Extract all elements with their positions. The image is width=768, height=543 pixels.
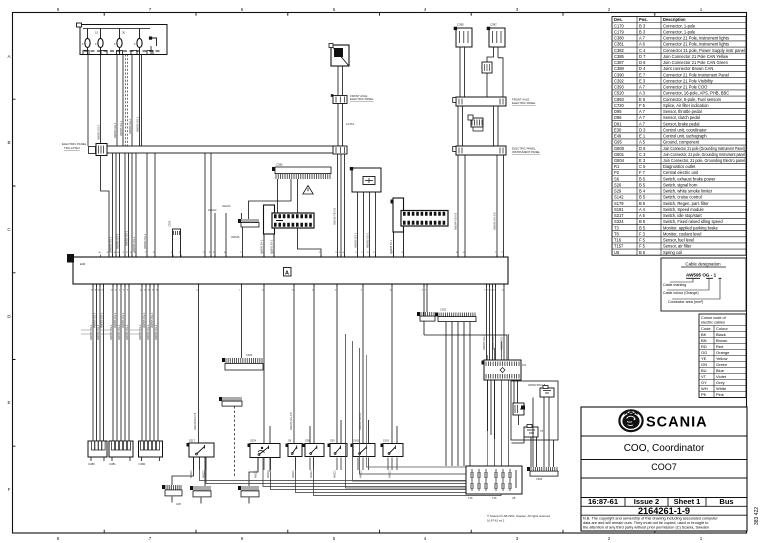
- svg-text:Switch, Speed module: Switch, Speed module: [663, 207, 704, 212]
- svg-text:RD: RD: [701, 344, 707, 349]
- svg-text:Sensor, air filter: Sensor, air filter: [663, 244, 692, 249]
- wire labels duct-E30 bundle: [109, 230, 148, 252]
- svg-text:F 5: F 5: [639, 244, 646, 249]
- svg-text:AW595 OG-1: AW595 OG-1: [96, 324, 100, 340]
- svg-text:C520: C520: [246, 353, 253, 357]
- svg-text:T16: T16: [468, 496, 473, 500]
- svg-text:S6: S6: [614, 176, 620, 181]
- sensor T157 box: [540, 388, 554, 397]
- svg-text:B 5: B 5: [639, 225, 646, 230]
- svg-text:Brown: Brown: [716, 338, 727, 343]
- wire pair T3 down: [338, 66, 343, 96]
- svg-text:Connector, 16-pole, APS, PHB,: Connector, 16-pole, APS, PHB, BBC: [663, 91, 729, 96]
- svg-text:B 5: B 5: [639, 250, 646, 255]
- svg-text:INSTRUMENT PANEL: INSTRUMENT PANEL: [512, 150, 540, 154]
- connector C170 front axle boundary: [333, 96, 347, 104]
- wire labels E49 bundle: [353, 232, 369, 248]
- wire labels C381 bundle: [109, 312, 129, 340]
- svg-text:COO, Coordinator: COO, Coordinator: [624, 443, 705, 454]
- svg-text:Switch, Regen. part. filter: Switch, Regen. part. filter: [663, 201, 709, 206]
- svg-text:Conductor area (mm²): Conductor area (mm²): [668, 300, 703, 304]
- svg-text:AW221: AW221: [255, 470, 258, 478]
- svg-text:F: F: [114, 42, 116, 46]
- svg-text:C392: C392: [614, 78, 625, 83]
- svg-text:U5: U5: [512, 496, 516, 500]
- svg-text:D 6: D 6: [639, 146, 646, 151]
- switch S191: [383, 444, 403, 457]
- svg-text:T157: T157: [614, 244, 624, 249]
- svg-text:A 4: A 4: [639, 207, 646, 212]
- svg-text:5: 5: [333, 536, 336, 541]
- control unit E30 coordinator band: [67, 252, 508, 291]
- svg-text:SCANIA: SCANIA: [646, 415, 708, 431]
- connector C390: [139, 441, 163, 466]
- svg-text:Pos.: Pos.: [639, 17, 648, 22]
- svg-text:AW595 OG-1: AW595 OG-1: [125, 230, 129, 246]
- svg-text:AW595 OG-1: AW595 OG-1: [113, 312, 117, 328]
- svg-text:© Scania CV AB 2004, Sweden. A: © Scania CV AB 2004, Sweden. All rights …: [487, 514, 551, 518]
- svg-text:AC154: AC154: [346, 122, 354, 126]
- svg-text:AW595 OG-1: AW595 OG-1: [125, 324, 129, 340]
- svg-text:N.B. The copyright and ownersh: N.B. The copyright and ownership of this…: [583, 517, 719, 521]
- svg-text:COO7: COO7: [651, 462, 677, 472]
- svg-text:AW221: AW221: [310, 470, 313, 478]
- svg-text:F 3: F 3: [639, 231, 646, 236]
- svg-text:G95: G95: [176, 502, 181, 506]
- svg-text:A 5: A 5: [639, 213, 646, 218]
- svg-text:Black: Black: [716, 332, 726, 337]
- svg-text:AW595 OG-1: AW595 OG-1: [109, 236, 113, 252]
- svg-text:Ground, component: Ground, component: [663, 140, 700, 145]
- wire horizontal to diagnostics: [424, 284, 507, 360]
- svg-text:C382: C382: [614, 48, 625, 53]
- svg-text:AW595 OG-1: AW595 OG-1: [109, 324, 113, 340]
- svg-text:S26: S26: [614, 182, 622, 187]
- wire bundle to C380: [93, 284, 104, 441]
- svg-text:A 7: A 7: [639, 36, 646, 41]
- svg-text:Sheet 1: Sheet 1: [674, 497, 701, 506]
- wire to S6: [198, 284, 200, 443]
- svg-text:C392: C392: [440, 308, 447, 312]
- svg-text:Spring coil: Spring coil: [663, 250, 682, 255]
- svg-text:B 3: B 3: [639, 29, 646, 34]
- svg-text:5: 5: [333, 7, 336, 12]
- svg-text:C 4: C 4: [639, 48, 646, 53]
- svg-text:Issue 2: Issue 2: [634, 497, 659, 506]
- sensor T8 box: [524, 427, 538, 437]
- svg-text:F: F: [82, 42, 84, 46]
- svg-text:Bus: Bus: [719, 497, 733, 506]
- svg-text:E 3: E 3: [639, 78, 646, 83]
- component designation table: [612, 17, 746, 256]
- svg-text:16:87-61: 16:87-61: [588, 497, 618, 506]
- svg-text:C388: C388: [614, 66, 625, 71]
- dashed wire splice: [234, 406, 236, 476]
- svg-text:Description: Description: [663, 17, 686, 22]
- monitor T3 applied parking brake: [329, 44, 349, 67]
- svg-text:Connector 21 Pole COO: Connector 21 Pole COO: [663, 85, 707, 90]
- svg-text:AW595 OG-1: AW595 OG-1: [119, 120, 123, 136]
- svg-text:C893: C893: [536, 477, 543, 481]
- scania griffin badge: [619, 410, 642, 431]
- svg-text:4: 4: [424, 536, 427, 541]
- svg-text:Control unit, tachograph: Control unit, tachograph: [663, 134, 707, 139]
- svg-text:S29: S29: [330, 439, 335, 443]
- svg-text:G804: G804: [614, 158, 625, 163]
- svg-text:E 3: E 3: [639, 158, 646, 163]
- switch stub labels: [190, 470, 392, 478]
- wire labels C390 bundle: [138, 312, 158, 340]
- svg-text:E30: E30: [80, 262, 86, 266]
- joint connector C387 CAN green: [487, 23, 505, 48]
- svg-text:AW221: AW221: [267, 470, 270, 478]
- svg-text:Sensor, throttle pedal: Sensor, throttle pedal: [663, 109, 702, 114]
- wires enclosure down: [512, 398, 554, 468]
- svg-text:Join Connector, 21 pole, Groun: Join Connector, 21 pole, Grounding Instr…: [663, 152, 745, 157]
- svg-text:AW595 OG-1: AW595 OG-1: [132, 236, 136, 252]
- wire pair C385: [205, 153, 211, 257]
- svg-text:C381: C381: [109, 462, 116, 466]
- svg-text:7: 7: [149, 536, 152, 541]
- svg-text:E: E: [7, 400, 10, 405]
- wire triple to E30 can: [338, 154, 345, 257]
- svg-text:7: 7: [149, 7, 152, 12]
- connector C381: [109, 441, 133, 466]
- svg-text:VT: VT: [701, 374, 707, 379]
- svg-text:AW218 BU-0.8: AW218 BU-0.8: [193, 412, 197, 430]
- svg-text:F: F: [134, 42, 136, 46]
- svg-text:ELECTRIC PANEL: ELECTRIC PANEL: [350, 97, 374, 101]
- svg-text:Sensor, brake pedal: Sensor, brake pedal: [663, 121, 700, 126]
- svg-text:Connector 21 pole, Power Suppl: Connector 21 pole, Power Supply instr pa…: [663, 48, 745, 53]
- wire labels R1 bundle: [482, 334, 504, 350]
- connector C520 comb: [225, 363, 263, 370]
- wire to S142: [337, 284, 341, 443]
- svg-text:AW221: AW221: [292, 470, 295, 478]
- svg-text:16:87-61 ed.2: 16:87-61 ed.2: [487, 519, 505, 523]
- svg-text:D 7: D 7: [639, 54, 646, 59]
- svg-text:F: F: [95, 42, 97, 46]
- svg-text:the attention of any third par: the attention of any third party without…: [583, 526, 709, 530]
- svg-text:Join Connector 21 pole (Ground: Join Connector 21 pole (Grounding Instru…: [663, 146, 746, 151]
- svg-text:B 5: B 5: [639, 201, 646, 206]
- svg-text:AW595 OG-1: AW595 OG-1: [97, 124, 101, 140]
- wire labels left bundle: [97, 116, 140, 140]
- svg-text:B 5: B 5: [639, 195, 646, 200]
- diagnostics outlet R1: [482, 360, 527, 380]
- join connector G800 grounding: [391, 198, 449, 232]
- svg-text:C387: C387: [490, 23, 497, 27]
- join connector G801 grounding: [264, 205, 315, 234]
- wire labels C380 bundle: [89, 312, 104, 340]
- svg-text:E49: E49: [614, 134, 622, 139]
- svg-text:B 5: B 5: [639, 176, 646, 181]
- svg-text:S191: S191: [383, 439, 390, 443]
- svg-text:BN: BN: [701, 338, 707, 343]
- svg-text:A 7: A 7: [639, 109, 646, 114]
- svg-text:AW595 OG - 1: AW595 OG - 1: [686, 273, 717, 278]
- colour code table: [699, 314, 746, 398]
- svg-text:D 4: D 4: [639, 66, 646, 71]
- svg-text:AW595 OG-1: AW595 OG-1: [365, 232, 369, 248]
- wire x226: [225, 213, 227, 257]
- reference node A box: [284, 268, 292, 277]
- wire G800 legs: [394, 232, 404, 257]
- svg-text:C387: C387: [614, 60, 625, 65]
- svg-text:4: 4: [424, 7, 427, 12]
- svg-text:1: 1: [700, 536, 703, 541]
- svg-text:P2: P2: [614, 170, 620, 175]
- svg-text:Switch, Fixed raised idling sp: Switch, Fixed raised idling speed: [663, 219, 723, 224]
- svg-text:3: 3: [516, 7, 519, 12]
- svg-text:Colour code of: Colour code of: [701, 316, 727, 320]
- switch bottom stubs: [194, 458, 398, 471]
- svg-text:AW595 OG-1: AW595 OG-1: [92, 312, 96, 328]
- svg-text:3: 3: [516, 536, 519, 541]
- switch S324: [250, 444, 280, 458]
- switch S6: [288, 444, 302, 457]
- svg-text:Orange: Orange: [716, 350, 730, 355]
- connector bar electric panel lower: [456, 146, 506, 155]
- wires from C392 comb: [446, 322, 470, 467]
- svg-text:AW228 YE-0.8: AW228 YE-0.8: [358, 412, 362, 430]
- svg-text:C720: C720: [614, 103, 625, 108]
- wire comb to E30: [242, 227, 244, 257]
- svg-text:AW595 OG-1: AW595 OG-1: [482, 334, 486, 350]
- svg-text:T16: T16: [614, 238, 622, 243]
- comb C392: [438, 317, 476, 322]
- svg-text:A 7: A 7: [639, 85, 646, 90]
- cable duct electric panel C381: [62, 142, 344, 156]
- svg-text:A 6: A 6: [639, 42, 646, 47]
- wire C382 right leg: [298, 179, 322, 257]
- svg-text:D 3: D 3: [639, 127, 646, 132]
- connector C382 power supply comb: [275, 167, 331, 174]
- switch S26: [305, 444, 324, 457]
- svg-text:C170: C170: [614, 23, 625, 28]
- svg-text:AW595 OG-1: AW595 OG-1: [121, 312, 125, 328]
- svg-text:F: F: [8, 487, 11, 492]
- svg-text:Switch, white smoke limiter: Switch, white smoke limiter: [663, 189, 713, 194]
- wire to S191: [392, 284, 397, 443]
- wire C382 left leg: [249, 179, 292, 219]
- routing loop wires CAN: [346, 334, 509, 488]
- svg-text:S191: S191: [614, 207, 624, 212]
- svg-text:AW595 OG-1: AW595 OG-1: [146, 324, 150, 340]
- fuse box P2 central electric unit: [77, 23, 168, 55]
- switch S29: [330, 444, 347, 457]
- svg-text:YE: YE: [701, 356, 707, 361]
- svg-text:F 5: F 5: [639, 103, 646, 108]
- wire P2 to E30 pin jog: [101, 156, 110, 257]
- svg-text:Connector 21 Pole, instrument: Connector 21 Pole, instrument lights: [663, 36, 729, 41]
- svg-text:D95: D95: [614, 109, 622, 114]
- svg-text:C393: C393: [614, 85, 625, 90]
- svg-text:Cable marking: Cable marking: [663, 283, 686, 287]
- svg-text:U5: U5: [614, 250, 620, 255]
- svg-text:S217: S217: [614, 213, 624, 218]
- svg-text:Control unit, coordinator: Control unit, coordinator: [663, 127, 707, 132]
- svg-text:GN: GN: [701, 362, 707, 367]
- svg-text:E 5: E 5: [639, 97, 646, 102]
- wire quad bar to bar: [458, 106, 498, 146]
- svg-text:G800: G800: [614, 146, 625, 151]
- svg-text:Cable designation: Cable designation: [685, 262, 721, 267]
- svg-text:Cable colour (Orange): Cable colour (Orange): [663, 291, 699, 295]
- wire bundle duct to E30: [113, 153, 156, 257]
- svg-text:R1: R1: [614, 164, 620, 169]
- tachograph control unit E49: [350, 167, 381, 192]
- svg-text:AW516 YE-0.8: AW516 YE-0.8: [333, 207, 337, 225]
- svg-text:Pink: Pink: [716, 392, 724, 397]
- joint connector comb x241: [241, 223, 259, 227]
- svg-text:A 7: A 7: [639, 115, 646, 120]
- svg-text:F 7: F 7: [639, 170, 646, 175]
- wire dashed pair: [126, 55, 128, 147]
- svg-text:AW221: AW221: [190, 470, 193, 478]
- svg-text:C381: C381: [614, 42, 625, 47]
- connector on E30 x173: [173, 229, 181, 257]
- svg-text:8: 8: [57, 536, 60, 541]
- svg-text:AW544 YE-0.8: AW544 YE-0.8: [454, 212, 458, 230]
- svg-text:Connector, 6-pole, Fuel sensor: Connector, 6-pole, Fuel sensors: [663, 97, 721, 102]
- svg-text:Diagnostics outlet: Diagnostics outlet: [663, 164, 696, 169]
- wire pair C170 down: [338, 104, 343, 147]
- wire quad bar to E30: [458, 155, 504, 257]
- svg-text:AW225 GN-0.8: AW225 GN-0.8: [289, 412, 293, 430]
- switch S217: [189, 443, 214, 457]
- routing loop inner: [367, 355, 488, 467]
- svg-text:D91: D91: [614, 121, 622, 126]
- svg-text:S324: S324: [614, 219, 624, 224]
- svg-text:Connector 21 Pole Instrument P: Connector 21 Pole Instrument Panel: [663, 72, 729, 77]
- svg-text:S26: S26: [305, 439, 310, 443]
- wire G801 legs to E30: [264, 234, 274, 257]
- svg-text:15: 15: [95, 31, 99, 35]
- svg-text:Join Connector, 21 pole, Groun: Join Connector, 21 pole, Grounding Elect…: [663, 158, 745, 163]
- svg-text:2164261-1-9: 2164261-1-9: [638, 506, 690, 516]
- svg-text:C385: C385: [457, 23, 464, 27]
- svg-text:6: 6: [241, 7, 244, 12]
- svg-text:Monitor, coolant level: Monitor, coolant level: [663, 231, 702, 236]
- relay symbol enclosure: [513, 403, 524, 415]
- svg-text:AW595 OG-1: AW595 OG-1: [138, 324, 142, 340]
- title block frame: [581, 407, 747, 531]
- svg-text:1: 1: [700, 7, 703, 12]
- svg-text:PK: PK: [701, 392, 707, 397]
- svg-text:A: A: [285, 271, 289, 277]
- svg-text:AW595 OG-1: AW595 OG-1: [500, 334, 504, 350]
- svg-text:Des.: Des.: [614, 17, 623, 22]
- svg-text:C520: C520: [614, 91, 625, 96]
- svg-text:AW595 OG-1: AW595 OG-1: [113, 122, 117, 138]
- warning triangle: [303, 186, 313, 195]
- svg-text:AW595 OG-1: AW595 OG-1: [150, 312, 154, 328]
- splice comb small: [222, 401, 242, 406]
- wire to S179: [363, 284, 369, 443]
- combs below switches: [165, 490, 182, 496]
- svg-text:AW595 OG-1: AW595 OG-1: [117, 324, 121, 340]
- svg-text:Connector 21 Pole, instrument: Connector 21 Pole, instrument lights: [663, 42, 729, 47]
- svg-text:Violet: Violet: [716, 374, 727, 379]
- svg-text:Connector, 1-pole: Connector, 1-pole: [663, 29, 696, 34]
- svg-text:TRA-CTRL2: TRA-CTRL2: [64, 146, 80, 150]
- wires R1 to enclosure: [488, 380, 518, 439]
- svg-text:GY: GY: [701, 380, 707, 385]
- svg-text:Switch, signal horn: Switch, signal horn: [663, 182, 698, 187]
- svg-text:Join Connector 21 Pole CAN Yel: Join Connector 21 Pole CAN Yellow: [663, 54, 728, 59]
- svg-text:Colour: Colour: [716, 326, 728, 331]
- svg-text:Switch, cruise control: Switch, cruise control: [663, 195, 702, 200]
- svg-text:B 5: B 5: [639, 219, 646, 224]
- wire S217 to comb C170b: [172, 457, 194, 485]
- wire bundle to C381: [113, 284, 129, 441]
- svg-text:S217: S217: [189, 439, 196, 443]
- wire S324 to comb: [249, 458, 270, 487]
- svg-text:A 7: A 7: [639, 121, 646, 126]
- svg-text:AW593 BN-0.8: AW593 BN-0.8: [528, 383, 546, 387]
- svg-text:D 6: D 6: [639, 60, 646, 65]
- cable designation legend: [661, 258, 746, 311]
- svg-text:AW545 GN-0.8: AW545 GN-0.8: [493, 212, 497, 230]
- svg-text:30: 30: [122, 31, 126, 35]
- comb stubs ground: [172, 497, 249, 504]
- svg-text:B 4: B 4: [639, 189, 646, 194]
- svg-text:AW595 OG-1: AW595 OG-1: [353, 232, 357, 248]
- svg-text:C179: C179: [614, 29, 625, 34]
- svg-text:AW595 OG-1: AW595 OG-1: [142, 312, 146, 328]
- svg-text:Code: Code: [701, 326, 711, 331]
- svg-text:T16: T16: [492, 496, 497, 500]
- wire pair C385 down: [460, 47, 465, 97]
- svg-text:BK: BK: [701, 332, 707, 337]
- svg-text:383 422: 383 422: [754, 507, 760, 525]
- svg-text:WH: WH: [701, 386, 708, 391]
- svg-text:AW595 OG-1: AW595 OG-1: [491, 334, 495, 350]
- svg-text:Splice, Air filter indication: Splice, Air filter indication: [663, 103, 709, 108]
- svg-text:AW595 OG-1: AW595 OG-1: [89, 324, 93, 340]
- wire to S26: [293, 284, 295, 443]
- svg-text:R1: R1: [523, 363, 527, 367]
- svg-text:E 7: E 7: [639, 72, 646, 77]
- svg-text:C 5: C 5: [639, 164, 646, 169]
- wire to S29: [310, 284, 314, 443]
- svg-text:AW595 OG-1: AW595 OG-1: [128, 118, 132, 134]
- switch S142: [353, 444, 375, 457]
- svg-text:B 3: B 3: [639, 23, 646, 28]
- svg-text:Monitor, applied parking brake: Monitor, applied parking brake: [663, 225, 719, 230]
- svg-text:D96: D96: [614, 115, 622, 120]
- svg-text:C382: C382: [276, 163, 283, 167]
- svg-text:F 5: F 5: [639, 238, 646, 243]
- svg-text:AW595 OG-1: AW595 OG-1: [99, 312, 103, 328]
- svg-text:Sensor, fuel level: Sensor, fuel level: [663, 238, 694, 243]
- svg-text:C893: C893: [614, 97, 625, 102]
- svg-text:Grey: Grey: [716, 380, 725, 385]
- wire C382 mid leg: [277, 179, 279, 213]
- svg-text:data are and will remain ours.: data are and will remain ours. They must…: [583, 521, 708, 525]
- svg-text:Red: Red: [716, 344, 723, 349]
- svg-text:6: 6: [241, 536, 244, 541]
- joint connector C385 CAN yellow: [454, 23, 472, 48]
- svg-text:Joint connector Brown CAN: Joint connector Brown CAN: [663, 66, 713, 71]
- bundle leader lines: [81, 330, 140, 334]
- svg-text:Connector, 1-pole: Connector, 1-pole: [663, 23, 696, 28]
- joint connector C388 brown CAN: [482, 62, 492, 73]
- wire C387 jog to C388: [487, 47, 503, 97]
- svg-text:electric cables: electric cables: [701, 321, 725, 325]
- svg-text:Yellow: Yellow: [716, 356, 728, 361]
